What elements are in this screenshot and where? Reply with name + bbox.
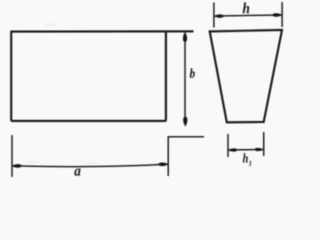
arrowhead h1 left — [228, 148, 237, 151]
trapezoid cross-section outline — [210, 30, 282, 122]
arrowhead b bottom — [183, 116, 187, 127]
label b — [190, 68, 195, 78]
label h1 subscript 1 — [249, 161, 251, 166]
arrowhead h1 right — [254, 148, 263, 151]
extension tick h1 left — [227, 134, 229, 157]
label h — [243, 3, 250, 14]
arrowhead h left — [214, 14, 225, 17]
dimension line b shaft — [184, 33, 186, 118]
step extension line bottom-right — [168, 137, 204, 176]
extension line a left — [11, 135, 13, 177]
label a — [74, 168, 80, 175]
arrowhead b top — [183, 32, 187, 43]
dimension line h shaft — [215, 15, 282, 16]
label h1 — [243, 153, 248, 162]
arrowhead a left — [12, 164, 23, 168]
extension tick h1 right — [263, 132, 265, 156]
faint scan smudge top-left — [26, 23, 98, 165]
dimension line h1 shaft — [228, 148, 263, 151]
dimension line a shaft — [12, 164, 168, 166]
rectangular plate outline — [10, 31, 193, 121]
arrowhead h right — [271, 13, 282, 16]
extension tick h left — [213, 3, 215, 28]
extension tick h right — [281, 2, 283, 27]
scan background — [0, 0, 299, 184]
arrowhead a right — [157, 162, 168, 166]
